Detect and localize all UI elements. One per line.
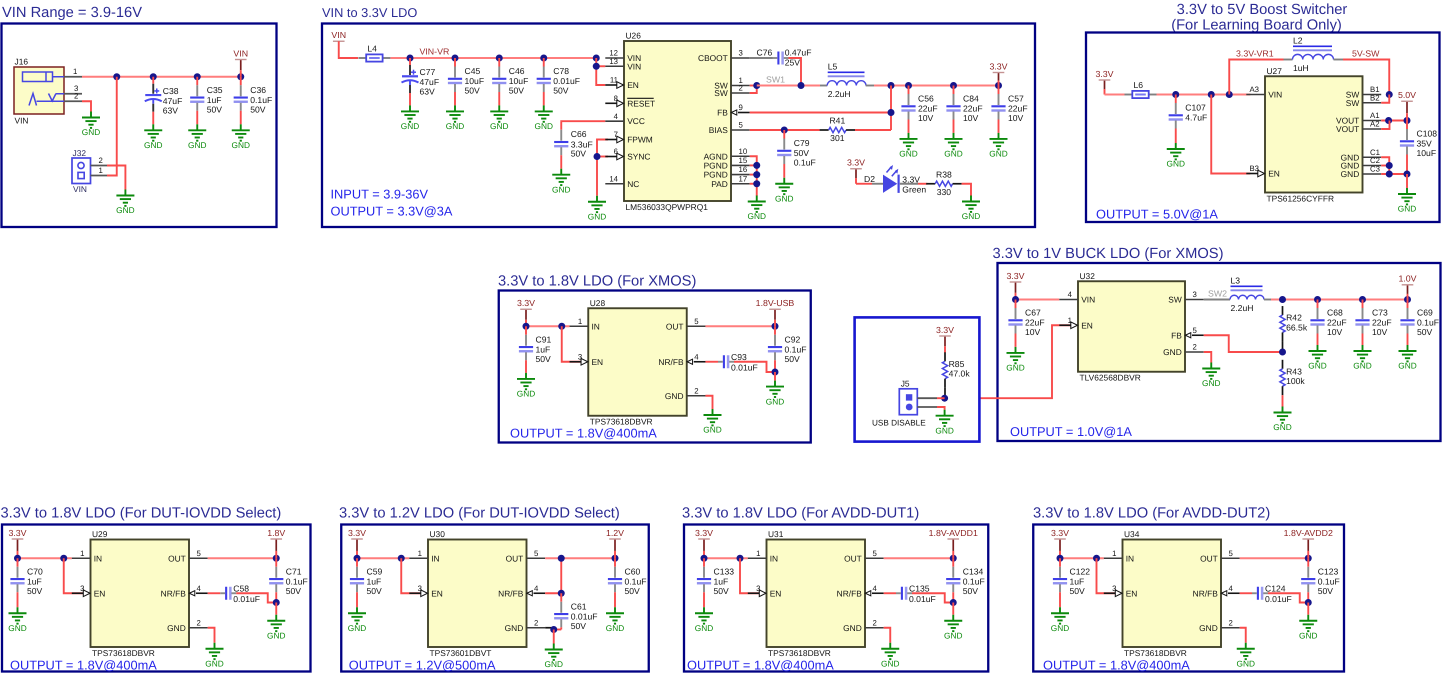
svg-text:L3: L3: [1231, 276, 1241, 286]
capacitor C73: [1355, 300, 1391, 346]
svg-text:VIN: VIN: [15, 116, 29, 126]
junction Cout bottom: [1305, 599, 1312, 606]
svg-text:1.8V: 1.8V: [267, 528, 285, 538]
ground R43: [1273, 407, 1291, 433]
svg-text:GND: GND: [348, 623, 366, 633]
svg-text:0.01uF: 0.01uF: [909, 594, 936, 604]
svg-text:10V: 10V: [918, 113, 934, 123]
wire D2 to R38: [918, 183, 927, 185]
junction Cin: [701, 555, 708, 562]
wire OUT riser to NR/FB: [545, 592, 561, 594]
junction C92 bottom: [772, 369, 779, 376]
ground: [1051, 607, 1069, 633]
capacitor C36: [234, 77, 273, 125]
lead L5 left: [820, 85, 827, 87]
svg-text:GND: GND: [1341, 169, 1360, 179]
svg-text:4: 4: [614, 112, 619, 121]
ground pin2: [1237, 643, 1255, 669]
svg-text:NR/FB: NR/FB: [161, 588, 187, 598]
junction Cin: [1057, 555, 1064, 562]
wire to pin 13: [596, 65, 605, 67]
svg-text:1.8V-AVDD1: 1.8V-AVDD1: [929, 528, 978, 538]
capacitor C60: [608, 558, 647, 607]
svg-text:1: 1: [1068, 316, 1072, 325]
svg-text:0.01uF: 0.01uF: [731, 362, 758, 372]
junction PGND15: [753, 162, 760, 169]
svg-text:C67: C67: [1025, 308, 1041, 318]
svg-text:EN: EN: [627, 80, 639, 90]
svg-text:50V: 50V: [367, 586, 383, 596]
ground: [535, 105, 553, 131]
svg-text:U28: U28: [590, 298, 606, 308]
ground: [944, 133, 962, 159]
svg-text:VIN: VIN: [1081, 295, 1095, 305]
inductor L3: [1230, 276, 1264, 314]
junction C108 bottom: [1404, 171, 1411, 178]
junction 3.3V rail / C84: [950, 82, 957, 89]
svg-text:7: 7: [614, 130, 618, 139]
wire EN from J5: [979, 325, 1071, 398]
wire OUT rail: [1240, 557, 1309, 559]
wire SW pins: [750, 85, 757, 87]
resistor R42: [1280, 306, 1308, 341]
svg-text:1.2V: 1.2V: [606, 528, 624, 538]
svg-text:OUT: OUT: [1200, 553, 1218, 563]
svg-text:GND: GND: [944, 149, 962, 159]
svg-text:C57: C57: [1008, 94, 1024, 104]
capacitor C57: [991, 86, 1027, 133]
svg-text:GND: GND: [167, 623, 186, 633]
capacitor C79: [777, 130, 816, 178]
ground pin2: [881, 643, 899, 669]
junction VIN rail / C36: [237, 73, 244, 80]
ground C108: [1398, 188, 1416, 214]
svg-text:U26: U26: [626, 31, 642, 41]
svg-text:3.3V to 1.8V LDO (For AVDD-DUT: 3.3V to 1.8V LDO (For AVDD-DUT1): [682, 506, 919, 522]
wire FB riser: [890, 86, 892, 131]
junction riser top: [558, 555, 565, 562]
svg-text:3.3V: 3.3V: [847, 158, 865, 168]
wire IN rail: [357, 557, 409, 559]
svg-text:OUTPUT = 3.3V@3A: OUTPUT = 3.3V@3A: [331, 204, 453, 219]
junction VIN-VR / C45: [452, 55, 459, 62]
junction VOUT A1: [1385, 117, 1392, 124]
capacitor C133: [697, 558, 734, 607]
ground FPWM/SYNC: [588, 196, 606, 222]
svg-text:IN: IN: [1126, 553, 1134, 563]
svg-text:10V: 10V: [1025, 327, 1041, 337]
svg-text:C123: C123: [1318, 566, 1339, 576]
svg-text:C79: C79: [794, 138, 810, 148]
junction EN drop: [1093, 555, 1100, 562]
svg-text:GND: GND: [8, 623, 26, 633]
svg-text:C77: C77: [420, 67, 436, 77]
ground: [1398, 345, 1416, 371]
section box USB DISABLE: [855, 317, 980, 441]
svg-text:U34: U34: [1124, 529, 1140, 539]
svg-text:(For Learning Board Only): (For Learning Board Only): [1171, 18, 1342, 34]
section box 3.3V to 1.2V LDO (For DUT-IOVDD Select): [341, 525, 649, 672]
power flag 5.0V: [1398, 90, 1416, 120]
capacitor C107: [1169, 95, 1208, 144]
junction C73: [1359, 296, 1366, 303]
svg-text:4: 4: [873, 584, 878, 593]
wire 3.3V to L6: [1105, 94, 1125, 96]
svg-text:CBOOT: CBOOT: [698, 53, 728, 63]
svg-text:EN: EN: [1081, 320, 1093, 330]
junction EN drop: [558, 323, 565, 330]
section box 1.8V LDO XMOS: [499, 291, 811, 443]
svg-text:3: 3: [756, 584, 760, 593]
svg-text:NR/FB: NR/FB: [658, 357, 684, 367]
svg-text:GND: GND: [1237, 658, 1255, 668]
svg-text:15: 15: [739, 156, 748, 165]
wire GND node down: [553, 630, 555, 644]
svg-text:4: 4: [694, 352, 699, 361]
wire C124 to OUT lower node: [1268, 593, 1308, 602]
svg-text:1: 1: [578, 317, 582, 326]
svg-text:C36: C36: [250, 85, 266, 95]
svg-text:5: 5: [739, 121, 744, 130]
svg-text:1.0V: 1.0V: [1398, 274, 1416, 284]
svg-text:3.3V: 3.3V: [348, 528, 366, 538]
svg-text:SW2: SW2: [1208, 289, 1227, 299]
junction FB divider: [1279, 349, 1286, 356]
svg-text:GND: GND: [1398, 204, 1416, 214]
svg-text:3.3V: 3.3V: [989, 61, 1007, 71]
junction VIN rail / C35: [194, 73, 201, 80]
svg-text:GND: GND: [505, 623, 524, 633]
svg-text:OUT: OUT: [844, 553, 862, 563]
svg-text:50V: 50V: [785, 354, 801, 364]
wire C92 node to GND: [774, 372, 776, 381]
svg-text:GND: GND: [1398, 361, 1416, 371]
svg-text:47uF: 47uF: [420, 77, 440, 87]
wire IN rail: [18, 557, 72, 559]
resistor R38: [926, 169, 961, 197]
IC U28: [570, 298, 706, 427]
inductor L4: [358, 43, 390, 61]
capacitor C71: [269, 558, 308, 602]
junction Cin: [354, 555, 361, 562]
svg-text:VIN-VR: VIN-VR: [420, 47, 450, 57]
lead L2 right: [1334, 59, 1344, 61]
svg-text:C56: C56: [918, 94, 934, 104]
IC U29: [72, 529, 208, 658]
svg-text:5: 5: [1229, 549, 1234, 558]
svg-text:GND: GND: [1051, 623, 1069, 633]
IC U26: [605, 31, 749, 212]
wire GND pin 2: [545, 627, 554, 629]
svg-text:50V: 50V: [1318, 586, 1334, 596]
svg-text:3.3V: 3.3V: [1095, 69, 1113, 79]
svg-text:OUTPUT = 1.0V@1A: OUTPUT = 1.0V@1A: [1010, 424, 1132, 439]
svg-text:J5: J5: [901, 378, 910, 388]
svg-text:EN: EN: [770, 588, 782, 598]
svg-text:OUT: OUT: [506, 553, 524, 563]
svg-text:L4: L4: [367, 43, 377, 53]
junction VIN-VR / C78: [540, 55, 547, 62]
capacitor C124: [1252, 583, 1292, 603]
junction J5 node: [941, 395, 948, 402]
junction pin13: [593, 63, 600, 70]
junction BIAS / C79: [781, 127, 788, 134]
section box VIN Range: [2, 24, 277, 228]
svg-text:R38: R38: [936, 169, 952, 179]
junction EN drop: [60, 555, 67, 562]
wire R38 to GND: [962, 184, 971, 196]
svg-text:50V: 50V: [27, 586, 43, 596]
svg-text:10V: 10V: [1327, 327, 1343, 337]
svg-text:C61: C61: [571, 601, 587, 611]
section box 3.3V to 1.8V LDO (For AVDD-DUT2): [1033, 525, 1344, 672]
svg-text:3.3V: 3.3V: [1006, 271, 1024, 281]
svg-text:C35: C35: [207, 85, 223, 95]
svg-text:OUTPUT = 1.8V@400mA: OUTPUT = 1.8V@400mA: [1043, 658, 1190, 673]
junction SW1: [753, 82, 760, 89]
svg-text:Green: Green: [902, 184, 926, 194]
wire 1.0V rail: [1271, 299, 1408, 301]
wire FB: [750, 112, 891, 114]
IC U34: [1104, 529, 1240, 658]
svg-text:3.3V to 5V Boost Switcher: 3.3V to 5V Boost Switcher: [1177, 2, 1348, 18]
svg-text:1: 1: [99, 166, 103, 175]
junction 3.3V rail / C56: [905, 82, 912, 89]
junction OUT: [273, 555, 280, 562]
wire OUT rail: [208, 557, 277, 559]
svg-text:GND: GND: [232, 140, 250, 150]
power flag VIN: [331, 30, 346, 41]
ground J32: [116, 190, 134, 216]
svg-text:C60: C60: [625, 566, 641, 576]
svg-text:GND: GND: [188, 140, 206, 150]
connector J32: [72, 148, 107, 194]
wire J32 pin2 to GND: [107, 166, 125, 190]
capacitor C58: [220, 583, 260, 603]
svg-text:GND: GND: [748, 211, 766, 221]
LED D2: [864, 165, 926, 194]
svg-text:50V: 50V: [207, 104, 223, 114]
wire C58 to OUT lower node: [236, 593, 276, 602]
ground: [1006, 347, 1024, 373]
wire L6 to U27 VIN: [1157, 94, 1251, 96]
svg-text:50V: 50V: [1417, 327, 1433, 337]
svg-text:GND: GND: [535, 121, 553, 131]
junction EN drop: [1208, 91, 1215, 98]
svg-text:GND: GND: [446, 121, 464, 131]
svg-text:VIN: VIN: [1268, 90, 1282, 100]
svg-text:TPS73618DBVR: TPS73618DBVR: [768, 648, 831, 658]
svg-text:LM536033QPWPRQ1: LM536033QPWPRQ1: [626, 202, 709, 212]
capacitor C92: [768, 326, 807, 372]
svg-text:SW: SW: [1346, 98, 1360, 108]
junction C67: [1012, 296, 1019, 303]
section box 3.3V to 1.8V LDO (For AVDD-DUT1): [684, 525, 988, 672]
wire VIN to L4: [339, 41, 358, 58]
svg-text:OUTPUT = 1.8V@400mA: OUTPUT = 1.8V@400mA: [510, 426, 657, 441]
svg-text:C59: C59: [367, 566, 383, 576]
junction Cout bottom: [950, 599, 957, 606]
svg-text:3: 3: [578, 352, 582, 361]
ground: [188, 124, 206, 150]
svg-text:5: 5: [534, 549, 539, 558]
svg-text:50V: 50V: [250, 104, 266, 114]
svg-text:2: 2: [873, 618, 877, 627]
svg-text:1.8V-USB: 1.8V-USB: [756, 298, 795, 308]
svg-text:0.1uF: 0.1uF: [794, 158, 816, 168]
junction GND pin2: [550, 626, 557, 633]
svg-text:GND: GND: [665, 391, 684, 401]
svg-text:C91: C91: [536, 334, 552, 344]
ground: [8, 607, 26, 633]
svg-text:L6: L6: [1134, 80, 1144, 90]
svg-text:C108: C108: [1417, 129, 1438, 139]
wire SYNC stub: [597, 156, 608, 158]
wire CBOOT to C76: [750, 57, 773, 59]
ground: [401, 105, 419, 131]
svg-text:SW: SW: [1168, 295, 1182, 305]
svg-text:GND: GND: [843, 623, 862, 633]
junction VOUT / C108: [1404, 117, 1411, 124]
svg-text:GND: GND: [962, 211, 980, 221]
svg-text:63V: 63V: [163, 105, 179, 115]
svg-text:C69: C69: [1417, 308, 1433, 318]
junction C69: [1404, 296, 1411, 303]
junction VIN-VR / U26 pins: [593, 55, 600, 62]
wire VIN rail to J32 pin1: [107, 77, 117, 176]
ground: [232, 124, 250, 150]
junction OUT / C92: [772, 323, 779, 330]
ground: [775, 178, 793, 204]
ground pin2: [545, 644, 563, 670]
ground U28 pin2: [703, 409, 721, 435]
svg-text:EN: EN: [431, 588, 443, 598]
svg-text:0.47uF: 0.47uF: [785, 48, 812, 58]
svg-text:5: 5: [197, 549, 202, 558]
svg-text:TPS73618DBVR: TPS73618DBVR: [1124, 648, 1187, 658]
svg-text:50V: 50V: [286, 586, 302, 596]
svg-text:R41: R41: [829, 116, 845, 126]
svg-text:4.7uF: 4.7uF: [1185, 113, 1207, 123]
svg-text:U29: U29: [92, 529, 108, 539]
IC U32: [1059, 271, 1203, 383]
ground R38: [962, 196, 980, 222]
svg-text:50V: 50V: [553, 86, 569, 96]
svg-text:PAD: PAD: [711, 179, 728, 189]
IC U27: [1246, 66, 1381, 204]
svg-text:R85: R85: [949, 359, 965, 369]
capacitor C134: [946, 558, 985, 602]
wire VOUT A2 up: [1381, 121, 1389, 130]
svg-text:J16: J16: [15, 57, 29, 67]
section box Boost Switcher: [1086, 33, 1440, 223]
svg-text:10V: 10V: [1008, 113, 1024, 123]
svg-text:A2: A2: [1370, 120, 1380, 129]
svg-text:5V-SW: 5V-SW: [1352, 49, 1380, 59]
wire U26 VIN pins / EN: [596, 58, 605, 85]
svg-text:VIN: VIN: [233, 48, 248, 58]
ground: [695, 607, 713, 633]
svg-text:GND: GND: [267, 630, 285, 640]
ground J16: [82, 112, 100, 138]
ground C92: [766, 381, 784, 407]
power flag 3.3V: [1051, 528, 1069, 558]
junction PAD: [753, 180, 760, 187]
svg-text:OUT: OUT: [168, 553, 186, 563]
svg-text:IN: IN: [591, 321, 599, 331]
svg-text:VIN: VIN: [627, 61, 641, 71]
svg-text:GND: GND: [944, 630, 962, 640]
wire to GND: [275, 603, 277, 615]
wire BIAS: [750, 129, 820, 131]
junction VIN-VR / C46: [496, 55, 503, 62]
svg-text:47.0k: 47.0k: [949, 369, 971, 379]
wire NR/FB to C58: [208, 592, 221, 594]
junction OUT: [950, 555, 957, 562]
svg-text:2: 2: [694, 386, 698, 395]
wire to U32 VIN: [1016, 299, 1060, 301]
power flag VIN: [233, 48, 248, 76]
capacitor C123: [1301, 558, 1340, 602]
lead L3 right: [1264, 299, 1271, 301]
svg-text:GND: GND: [775, 193, 793, 203]
ground pin2: [205, 643, 223, 669]
svg-text:GND: GND: [116, 205, 134, 215]
svg-text:GND: GND: [517, 389, 535, 399]
svg-text:VIN: VIN: [73, 184, 87, 194]
junction EN drop: [398, 555, 405, 562]
svg-text:1.8V-AVDD2: 1.8V-AVDD2: [1284, 528, 1333, 538]
resistor R41: [820, 116, 855, 144]
svg-text:1: 1: [756, 549, 760, 558]
capacitor C68: [1310, 300, 1346, 346]
ground: [552, 169, 570, 195]
power flag 3.3V: [8, 528, 26, 558]
svg-text:4: 4: [1068, 290, 1073, 299]
svg-text:2.2uH: 2.2uH: [1231, 303, 1254, 313]
wire J16 pin2 to GND: [82, 101, 91, 111]
svg-text:6: 6: [614, 147, 618, 156]
svg-text:100k: 100k: [1286, 376, 1305, 386]
svg-text:VIN to 3.3V LDO: VIN to 3.3V LDO: [322, 5, 417, 20]
svg-text:3.3V to 1V BUCK LDO (For XMOS): 3.3V to 1V BUCK LDO (For XMOS): [993, 246, 1224, 262]
junction PGND16: [753, 171, 760, 178]
svg-text:OUTPUT = 1.8V@400mA: OUTPUT = 1.8V@400mA: [687, 658, 834, 673]
svg-text:3: 3: [739, 49, 743, 58]
junction NR/FB: [558, 590, 565, 597]
svg-text:3.3V to 1.8V LDO (For AVDD-DUT: 3.3V to 1.8V LDO (For AVDD-DUT2): [1033, 506, 1270, 522]
svg-text:5: 5: [1193, 326, 1198, 335]
svg-text:EN: EN: [591, 357, 603, 367]
svg-text:C3: C3: [1370, 165, 1380, 174]
svg-text:INPUT = 3.9-36V: INPUT = 3.9-36V: [331, 187, 429, 202]
wire C61 bottom to GND node: [554, 629, 562, 631]
wire IN rail: [1060, 557, 1104, 559]
svg-text:0.01uF: 0.01uF: [233, 594, 260, 604]
svg-text:50V: 50V: [963, 586, 979, 596]
svg-text:GND: GND: [545, 659, 563, 669]
ground: [1167, 143, 1185, 169]
ground: [989, 133, 1007, 159]
svg-text:D2: D2: [864, 174, 875, 184]
svg-text:FPWM: FPWM: [627, 135, 653, 145]
ground: [446, 105, 464, 131]
svg-text:OUT: OUT: [666, 321, 684, 331]
power flag 3.3V xmos: [517, 298, 535, 326]
svg-text:GND: GND: [1006, 363, 1024, 373]
svg-text:9: 9: [739, 103, 743, 112]
svg-text:A3: A3: [1249, 85, 1259, 94]
